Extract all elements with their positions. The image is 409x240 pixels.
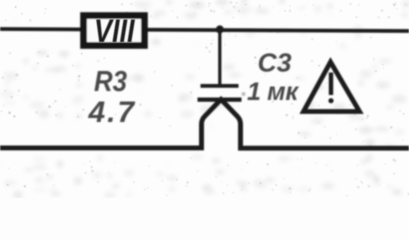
svg-text:R3: R3 <box>94 66 127 98</box>
svg-text:C3: C3 <box>258 48 293 78</box>
svg-text:4.7: 4.7 <box>88 96 136 129</box>
svg-text:1 мк: 1 мк <box>247 78 299 106</box>
svg-text:VIII: VIII <box>94 13 135 49</box>
